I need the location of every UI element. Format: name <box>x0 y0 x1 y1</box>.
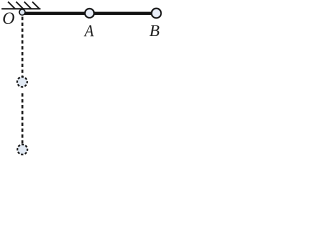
wall hatch stroke 4 <box>32 2 39 9</box>
rod OB <box>23 12 153 15</box>
dashed fall line lower segment <box>21 93 23 144</box>
wall hatch support base <box>2 8 41 10</box>
label O <box>3 13 14 25</box>
ghost ball 2 <box>17 145 27 155</box>
ball A <box>85 9 94 18</box>
dashed fall line upper segment <box>21 17 23 77</box>
wall hatch stroke 3 <box>24 2 31 9</box>
wall hatch stroke 2 <box>16 2 23 9</box>
wall hatch stroke 1 <box>8 2 15 9</box>
ball B <box>152 8 162 18</box>
pivot circle O <box>19 9 25 15</box>
label A <box>84 25 94 36</box>
ghost ball 1 <box>17 77 27 87</box>
label B <box>150 25 160 36</box>
